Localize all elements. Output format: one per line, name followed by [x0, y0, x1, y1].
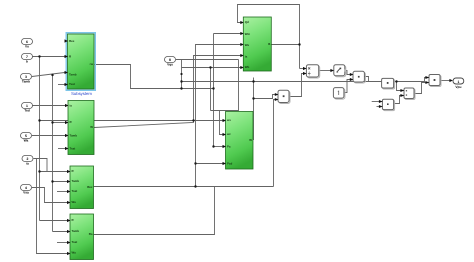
node 195-186 — [194, 185, 196, 187]
wire E output to A.in2 — [289, 74, 306, 97]
svg-text:Wa: Wa — [72, 251, 77, 255]
svg-text:Tsd: Tsd — [24, 109, 29, 113]
svg-text:ia: ia — [245, 55, 248, 59]
constant block C — [333, 88, 345, 100]
svg-text:3: 3 — [25, 75, 27, 79]
svg-text:1: 1 — [457, 80, 459, 84]
wire A out to u2 — [319, 70, 334, 72]
svg-text:Rec: Rec — [87, 185, 93, 189]
svg-text:Res: Res — [69, 39, 75, 43]
svg-text:Wa: Wa — [24, 139, 29, 143]
subsystem B2 — [65, 101, 94, 155]
wire C out to D.in2 — [344, 80, 353, 93]
svg-text:1: 1 — [26, 104, 28, 108]
svg-text:4: 4 — [25, 186, 27, 190]
svg-text:Wb: Wb — [245, 65, 250, 69]
subsystem B1 selected — [65, 33, 96, 96]
inport oval 2 b — [22, 54, 33, 64]
node 213-88 — [212, 87, 214, 89]
wire B6 output up to long line — [251, 78, 254, 140]
svg-text:ws: ws — [226, 118, 231, 122]
subsystem B5 top — [240, 17, 271, 71]
node 193-120 — [192, 119, 194, 121]
wire H out to I.in2 — [414, 83, 429, 94]
block G — [379, 99, 395, 110]
divide block A — [303, 65, 320, 78]
svg-text:5: 5 — [25, 134, 27, 138]
svg-text:Tsat: Tsat — [70, 147, 76, 151]
svg-text:ia: ia — [70, 104, 73, 108]
port arrow B1.in4 — [65, 83, 69, 86]
node 195-163 — [194, 162, 196, 164]
product block E — [275, 90, 290, 103]
wire vertical V1 from oval2 — [39, 57, 41, 221]
inport oval 3 Tamb — [21, 74, 32, 84]
wire Vqs across — [176, 59, 239, 61]
inport oval Vqs — [165, 57, 176, 67]
port arrow B1.in1 — [65, 39, 69, 42]
math u2 block B — [330, 65, 346, 77]
node V1-171 — [38, 170, 40, 172]
svg-text:Wa: Wa — [72, 200, 77, 204]
svg-text:Pa: Pa — [227, 145, 231, 149]
svg-text:Subsystem: Subsystem — [71, 91, 92, 96]
wire branch up to B5.in2 — [213, 34, 215, 147]
node 253-98 — [252, 97, 254, 99]
node 253-81 — [252, 80, 254, 82]
svg-text:Pcd: Pcd — [227, 162, 233, 166]
wire vertical V2 from oval3 — [52, 75, 54, 232]
wire branch to H.in1 — [397, 82, 405, 91]
wire stub G.in1 — [372, 101, 380, 103]
subsystem B4 — [67, 214, 94, 260]
svg-text:7: 7 — [26, 55, 28, 59]
wire stub B3.in3 — [57, 191, 70, 193]
wire into B6.in3 — [214, 146, 227, 148]
svg-text:Vs: Vs — [25, 45, 29, 49]
port arrow B1.in3 — [65, 71, 69, 74]
svg-text:Tamb: Tamb — [72, 229, 80, 233]
inport oval 1 Vs — [22, 39, 33, 49]
svg-text:Tsat: Tsat — [69, 82, 75, 86]
wire V1 to B3.in1 — [40, 171, 71, 173]
svg-text:Wm: Wm — [245, 32, 251, 36]
svg-text:wc: wc — [226, 132, 231, 136]
node V2-75 — [51, 74, 53, 76]
node V1-120 — [38, 119, 40, 121]
wire up to E.in1 — [274, 100, 279, 187]
svg-text:8: 8 — [169, 58, 171, 62]
wire stub B2.in4 — [58, 148, 68, 150]
wire stub G.in2 — [377, 106, 380, 108]
svg-text:6: 6 — [26, 40, 28, 44]
wire junction into A.in1 — [300, 68, 307, 70]
wire down to B6.in2 upper — [211, 60, 239, 111]
svg-text:W: W — [249, 138, 252, 142]
svg-text:Ra: Ra — [89, 232, 93, 236]
wire vertical to B5.in3 — [196, 45, 244, 187]
wire long line right part to I.in1 — [394, 78, 429, 82]
subsystem B3 — [67, 166, 94, 209]
wire G out to H.in2 — [394, 96, 404, 104]
node V2-181 — [51, 180, 53, 182]
svg-text:Tamb: Tamb — [22, 80, 30, 84]
wire top frame — [238, 5, 300, 69]
svg-text:Tamb: Tamb — [69, 73, 77, 77]
node V2-122 — [51, 121, 53, 123]
svg-text:Tsat: Tsat — [72, 189, 78, 193]
svg-text:W: W — [90, 125, 93, 129]
wire down into B6.in2 — [220, 111, 227, 135]
node Vqs-longline — [180, 80, 182, 82]
svg-text:Wa: Wa — [245, 43, 250, 47]
wire branch to B6.in4 — [196, 163, 226, 165]
wire V1 branch to B6.in1 — [40, 120, 226, 122]
node V1-oval2 — [38, 55, 40, 57]
wire B5 output to junction — [271, 44, 299, 46]
node 210-67 — [209, 66, 211, 68]
wire oval3 Tamb to B1.in3 — [32, 73, 65, 77]
svg-text:Vsa: Vsa — [23, 191, 29, 195]
svg-text:Tamb: Tamb — [72, 179, 80, 183]
wire branch to E.in2 — [254, 95, 279, 99]
wire D out join — [364, 77, 368, 82]
wire oval6 across — [34, 159, 48, 172]
sum block H — [400, 88, 415, 100]
node 299-44 — [298, 43, 300, 45]
node 213-146 — [212, 145, 214, 147]
port arrow B1.in2 — [65, 55, 69, 58]
inport oval 7 Vsa — [21, 185, 32, 195]
svg-text:Tamb: Tamb — [70, 134, 78, 138]
svg-text:B: B — [268, 42, 270, 46]
inport oval 5 Wa — [21, 133, 32, 143]
wire stub B1.in4 — [58, 84, 68, 86]
wire oval5 to B2.in3 — [32, 135, 68, 137]
wire u2 out to D.in1 — [345, 71, 353, 75]
svg-text:ia: ia — [26, 162, 29, 166]
wire V1 to B4.in1 — [40, 220, 71, 222]
wire stub B4.in3 — [57, 242, 70, 244]
node crossing 88 — [180, 87, 182, 89]
wire oval2 to B1.in2 — [33, 56, 68, 58]
wire B4 output up — [93, 187, 214, 235]
wire Vqs branch to B5.in5 — [182, 67, 244, 69]
wire oval7 to B3.in4 — [32, 188, 70, 203]
block I — [425, 75, 441, 87]
wire V2 to B4.in2 — [53, 231, 71, 233]
wire branch down to B4.in4 — [37, 159, 71, 254]
inport oval 4 Tsd — [22, 103, 33, 113]
svg-text:Vqs: Vqs — [167, 63, 173, 67]
outport oval Vpu — [449, 78, 463, 89]
svg-text:b: b — [26, 60, 28, 64]
node Vqs-74 — [180, 73, 182, 75]
wire B1 output across — [94, 65, 214, 89]
wire V2 branch to B2.in2 — [53, 122, 69, 124]
wire B3 output long — [93, 186, 273, 188]
inport oval 6 ia — [22, 156, 33, 166]
wire into B5.in2 — [214, 33, 244, 35]
subsystem B6 center — [223, 112, 254, 170]
gain block F — [382, 78, 395, 89]
sum block D — [350, 71, 366, 83]
wire Vqs down to long line — [181, 60, 183, 89]
svg-text:Tsat: Tsat — [72, 240, 78, 244]
svg-text:2: 2 — [27, 157, 29, 161]
wire oval4 to B2.in1 — [33, 105, 69, 107]
node 396-81 — [395, 80, 397, 82]
wire I out to outport — [440, 80, 450, 82]
wire V2 to B3.in2 — [53, 181, 71, 183]
svg-text:Vpu: Vpu — [455, 85, 461, 89]
wire branch from in5 line down — [210, 68, 212, 111]
wire B2 output up to B5.in4 — [94, 56, 243, 128]
wire long line left part — [182, 81, 382, 83]
svg-text:Qd: Qd — [245, 20, 249, 24]
